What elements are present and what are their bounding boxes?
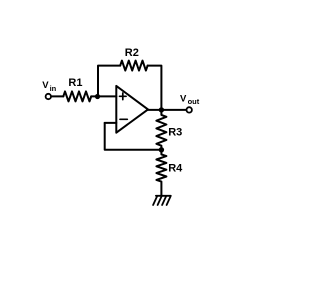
terminal Vin (46, 94, 51, 99)
op-amp minus pin label (120, 118, 127, 120)
svg-text:R3: R3 (168, 127, 182, 139)
terminal Vout (187, 107, 192, 112)
svg-text:V: V (42, 80, 49, 91)
op-amp U1 (116, 86, 148, 133)
output node junction dot (159, 107, 164, 112)
svg-text:R4: R4 (168, 162, 183, 174)
wire R2 right down to output node (148, 66, 162, 110)
resistor R1 (63, 91, 91, 101)
wire inverting input stub (105, 122, 117, 124)
R3/R4 node junction dot (159, 147, 164, 152)
resistor R2 (120, 61, 147, 71)
svg-text:R1: R1 (68, 77, 82, 89)
wire node A up to R2 branch (98, 66, 120, 97)
svg-text:R2: R2 (125, 47, 139, 59)
node A junction dot (95, 94, 100, 99)
ground (153, 196, 171, 205)
wire R1 to op-amp noninverting input (91, 95, 116, 97)
svg-text:V: V (180, 93, 187, 104)
svg-text:in: in (50, 84, 57, 93)
wire op-amp output to Vout (148, 109, 186, 111)
resistor R4 (156, 150, 166, 196)
svg-text:out: out (188, 97, 200, 106)
wire Vin lead (52, 95, 64, 97)
resistor R3 (156, 110, 166, 150)
op-amp plus pin label (120, 93, 127, 100)
wire feedback from R3/R4 node to inverting input (105, 123, 162, 150)
